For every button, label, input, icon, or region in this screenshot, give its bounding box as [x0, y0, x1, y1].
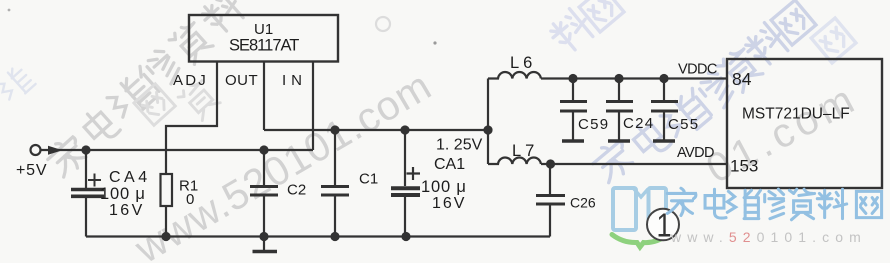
capacitor C2 [263, 150, 265, 185]
svg-text:U1: U1 [254, 21, 273, 38]
node C2/IN [259, 145, 268, 154]
logo circled 1 [647, 209, 679, 241]
svg-text:CA1: CA1 [434, 156, 465, 173]
logo book right page [649, 188, 667, 230]
wire bottom rail [86, 235, 550, 237]
svg-text:OUT: OUT [225, 72, 258, 89]
capacitor C24 [618, 79, 620, 101]
wire OUT pin [263, 62, 265, 131]
svg-text:MST721DU–LF: MST721DU–LF [742, 106, 850, 123]
capacitor CA4 [85, 150, 87, 188]
capacitor C59 [572, 79, 574, 101]
IC MST721DU-LF box [727, 59, 882, 188]
node CA4/+5V [81, 145, 90, 154]
svg-text:www.520101.com: www.520101.com [670, 229, 867, 245]
logo chinese text [667, 188, 881, 220]
svg-text:0: 0 [186, 191, 194, 208]
node C55 [659, 74, 668, 83]
svg-text:CA4: CA4 [109, 169, 151, 186]
svg-text:C24: C24 [623, 115, 654, 132]
svg-text:L6: L6 [510, 54, 536, 72]
svg-text:IN: IN [282, 72, 307, 89]
node R1 gnd [161, 232, 170, 241]
wire L6 L7 junction vertical [487, 79, 489, 165]
node C26/AVDD [546, 159, 555, 168]
wire AVDD rail [541, 163, 727, 165]
svg-text:VDDC: VDDC [678, 62, 717, 78]
node L6L7 [483, 125, 492, 134]
logo book left page [613, 188, 636, 230]
regulator U1 box [189, 15, 338, 62]
node CA1 [400, 125, 409, 134]
ground [263, 237, 265, 251]
wire +5V rail [41, 149, 313, 151]
terminal +5V [31, 145, 41, 155]
node C59 [568, 74, 577, 83]
capacitor C55 [663, 79, 665, 101]
capacitor C26 [549, 164, 551, 194]
svg-text:C26: C26 [570, 195, 596, 211]
svg-text:ADJ: ADJ [173, 72, 208, 89]
watermark right chinese diagonal [546, 0, 856, 185]
capacitor CA1 [404, 130, 406, 186]
svg-text:AVDD: AVDD [677, 145, 714, 161]
node C2 gnd [259, 232, 268, 241]
svg-text:153: 153 [730, 157, 758, 176]
svg-text:100 μ: 100 μ [100, 185, 146, 203]
wire IN pin [312, 62, 314, 151]
arrow [48, 146, 63, 155]
watermark left chinese diagonal [44, 0, 247, 179]
capacitor C1 [334, 130, 336, 185]
node C24 [614, 74, 623, 83]
svg-text:www.520101.com: www.520101.com [126, 62, 439, 263]
watermark left partial tile [0, 64, 222, 125]
svg-text:16V: 16V [109, 202, 145, 219]
svg-text:16V: 16V [432, 195, 466, 212]
wire 1.25V rail [264, 129, 488, 131]
logo book notch [634, 189, 648, 197]
inductor L6 [488, 72, 541, 79]
inductor L7 [488, 157, 541, 164]
node C1/1.25V [330, 125, 339, 134]
wire ADJ pin [166, 62, 217, 175]
svg-text:84: 84 [732, 69, 752, 89]
wire VDDC rail [541, 77, 727, 79]
svg-text:L7: L7 [512, 142, 538, 160]
speck [433, 41, 436, 44]
svg-text:+5V: +5V [16, 162, 47, 179]
svg-text:1. 25V: 1. 25V [436, 137, 483, 154]
svg-text:100 μ: 100 μ [421, 178, 467, 196]
svg-text:C59: C59 [578, 116, 609, 133]
svg-text:C55: C55 [668, 116, 699, 133]
node CA1 gnd [401, 232, 410, 241]
svg-text:SE8117AT: SE8117AT [229, 37, 299, 55]
svg-text:C1: C1 [359, 171, 378, 188]
logo green base [612, 235, 668, 248]
node C1 gnd [330, 232, 339, 241]
resistor R1 [161, 174, 173, 206]
svg-text:C2: C2 [287, 182, 306, 199]
